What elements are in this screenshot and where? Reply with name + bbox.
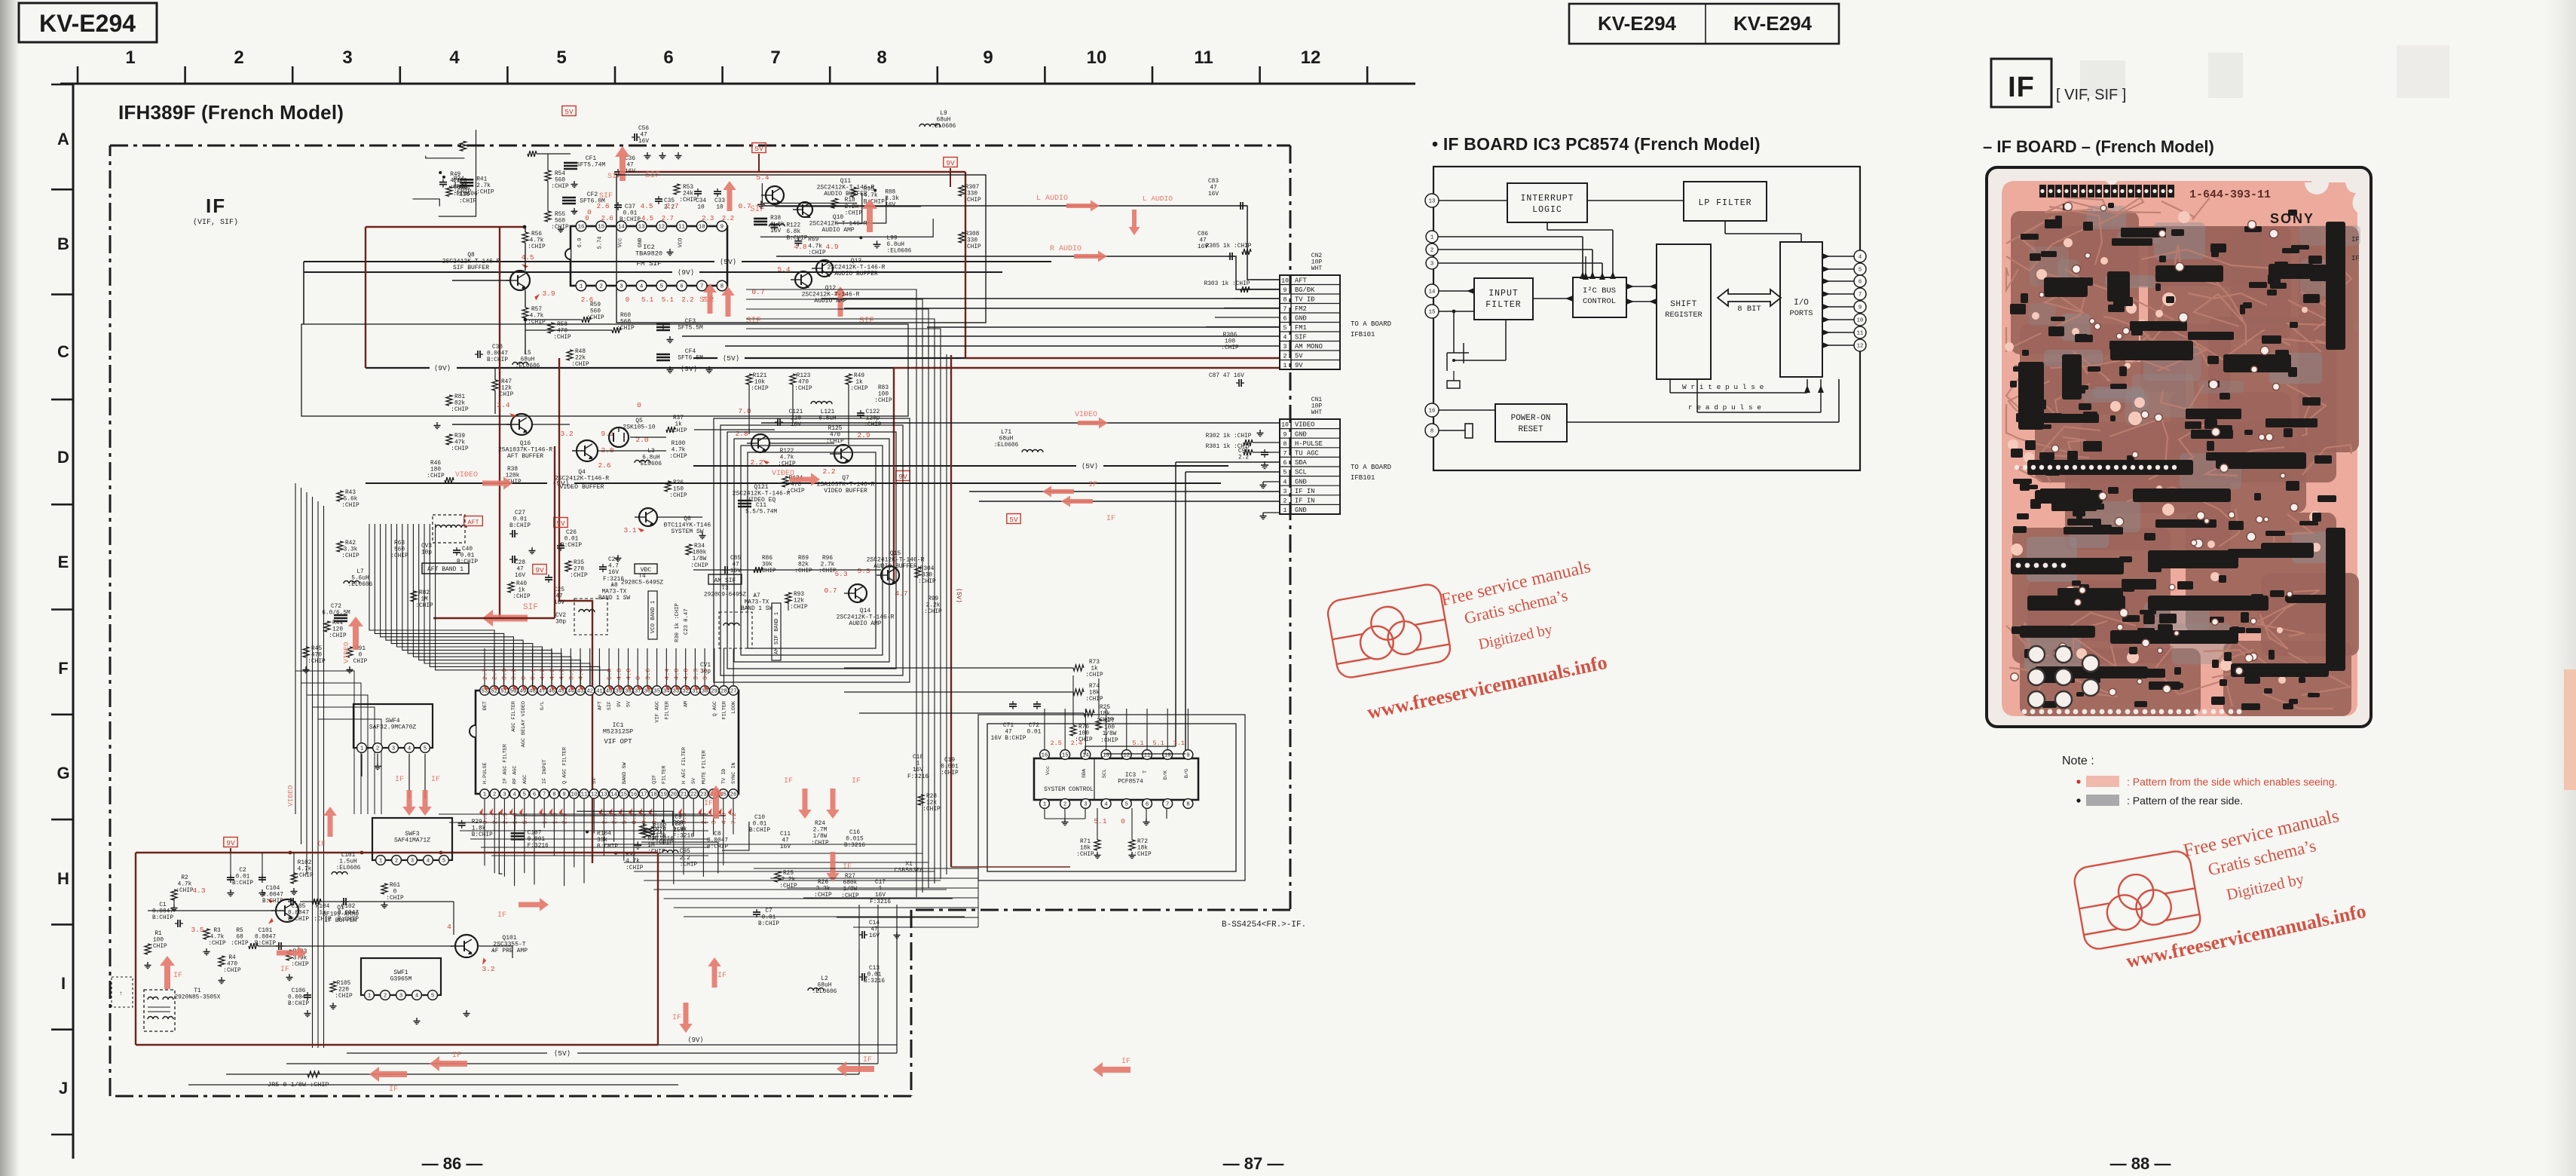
svg-text::CHIP: :CHIP <box>918 579 936 585</box>
block INTERRUPT LOGIC <box>1507 183 1587 222</box>
svg-text::CHIP: :CHIP <box>390 553 408 559</box>
9V box top audio <box>752 143 766 153</box>
svg-text:2920C9-6495Z: 2920C9-6495Z <box>704 593 746 599</box>
svg-text:5: 5 <box>442 859 445 865</box>
SWF3 filter <box>372 818 452 860</box>
PCB traces <box>2006 198 2351 709</box>
svg-text::CHIP: :CHIP <box>826 439 844 445</box>
transistor Q121 VIDEO EQ <box>751 434 769 452</box>
block INPUT FILTER <box>1474 278 1533 320</box>
svg-text:4.3: 4.3 <box>192 887 205 895</box>
transistor Q14 AUDIO AMP <box>849 584 867 602</box>
transistor Q15 AUDIO BUFFER <box>881 566 899 584</box>
svg-text:16: 16 <box>1042 753 1048 759</box>
block diagram outer box U-IC3 <box>1433 167 1860 470</box>
right side pin circles 4-12 <box>1854 250 1866 262</box>
svg-text:5V: 5V <box>754 145 763 153</box>
svg-text:IF IN: IF IN <box>1295 488 1314 495</box>
svg-text:FILTER: FILTER <box>1485 300 1521 310</box>
svg-text:42: 42 <box>586 689 593 695</box>
svg-text:45: 45 <box>558 689 564 695</box>
svg-text:L5: L5 <box>524 351 531 357</box>
svg-text:3.3k: 3.3k <box>816 887 831 893</box>
svg-text::CHIP: :CHIP <box>451 446 469 452</box>
svg-text:B:CHIP: B:CHIP <box>288 1001 309 1007</box>
svg-text::CHIP: :CHIP <box>427 473 445 479</box>
svg-text:1.8k: 1.8k <box>472 825 486 831</box>
svg-text:16: 16 <box>631 792 638 798</box>
svg-text:C87 47 16V: C87 47 16V <box>1209 373 1244 379</box>
svg-text:CV2: CV2 <box>555 613 566 619</box>
svg-text:2: 2 <box>376 746 379 752</box>
svg-text:Đ/K: Đ/K <box>1163 770 1169 779</box>
svg-text:10k: 10k <box>754 380 765 386</box>
svg-text:40: 40 <box>606 689 613 695</box>
svg-text:6: 6 <box>533 792 536 798</box>
svg-text:LP FILTER: LP FILTER <box>1698 198 1751 208</box>
svg-text:C10: C10 <box>754 815 765 821</box>
svg-text:6: 6 <box>1283 316 1287 323</box>
svg-text:SYSTEM CONTROL: SYSTEM CONTROL <box>1044 787 1094 793</box>
svg-text:T4: T4 <box>638 574 646 580</box>
transistor Q12 AUDIO AMP <box>795 271 812 288</box>
R AUDIO wire <box>776 256 1280 289</box>
svg-text:100: 100 <box>1225 339 1235 345</box>
svg-text:I/O: I/O <box>1794 299 1809 308</box>
svg-text:SCL: SCL <box>1102 769 1108 778</box>
svg-text:RESET: RESET <box>1518 425 1543 434</box>
svg-text:: Pattern of the rear side: : Pattern of the rear side. <box>2127 795 2243 807</box>
svg-text:GNĐ: GNĐ <box>1295 315 1307 323</box>
dashed small box left <box>112 977 133 1007</box>
svg-text:2.6: 2.6 <box>596 202 609 210</box>
svg-text:SYSTEM SW: SYSTEM SW <box>671 528 703 535</box>
svg-text:C107: C107 <box>528 830 542 836</box>
svg-text::CHIP: :CHIP <box>690 563 708 569</box>
svg-text:B:3216: B:3216 <box>844 843 865 849</box>
5V 9V red boxes mid <box>554 518 568 528</box>
svg-text:C28: C28 <box>515 560 525 566</box>
input filter to I2C wire <box>1533 298 1573 299</box>
svg-text:0.001: 0.001 <box>528 837 546 843</box>
svg-text:TV IĐ: TV IĐ <box>721 769 727 784</box>
svg-text:4.8: 4.8 <box>720 813 728 824</box>
svg-text:560: 560 <box>555 178 565 184</box>
svg-text:4.5: 4.5 <box>641 215 653 222</box>
svg-text::CHIP: :CHIP <box>679 198 697 204</box>
svg-text:WHT: WHT <box>1311 409 1323 416</box>
svg-text:3.5: 3.5 <box>702 669 709 680</box>
svg-text:7: 7 <box>1283 306 1287 313</box>
svg-text:IFB101: IFB101 <box>1351 331 1375 338</box>
svg-text:4.7k: 4.7k <box>808 243 822 250</box>
svg-text:R AUDIO: R AUDIO <box>1050 245 1081 253</box>
svg-text:47: 47 <box>1005 730 1012 736</box>
svg-text:16V: 16V <box>913 767 923 773</box>
svg-text:R96: R96 <box>647 836 658 842</box>
lower staircase from left <box>295 671 354 814</box>
svg-text:5V: 5V <box>592 777 598 784</box>
svg-text:5V: 5V <box>1009 516 1018 524</box>
svg-text::EL0606: :EL0606 <box>887 248 912 254</box>
svg-text:GNĐ: GNĐ <box>1295 507 1307 514</box>
svg-text::CHIP: :CHIP <box>149 944 167 950</box>
svg-text:11: 11 <box>678 225 685 231</box>
svg-text:68: 68 <box>236 935 243 941</box>
svg-text:C40: C40 <box>462 547 473 553</box>
CN2 long feed wires <box>821 298 1280 299</box>
svg-text:MUTE FILTER: MUTE FILTER <box>701 750 707 784</box>
svg-text:B:CHIP: B:CHIP <box>457 559 478 565</box>
svg-text:1: 1 <box>360 746 363 752</box>
svg-text:1k: 1k <box>319 911 326 917</box>
svg-text::CHIP: :CHIP <box>1100 738 1118 744</box>
svg-text:10: 10 <box>699 225 705 231</box>
svg-text:22: 22 <box>690 792 697 798</box>
svg-text::CHIP: :CHIP <box>476 189 494 195</box>
svg-text:5: 5 <box>660 284 663 290</box>
wires R54 CF2 <box>547 154 549 170</box>
svg-text:9V: 9V <box>616 700 623 707</box>
svg-text:5V: 5V <box>626 700 632 707</box>
svg-text:B:CHIP: B:CHIP <box>597 844 618 850</box>
svg-text:68uH: 68uH <box>521 357 535 363</box>
svg-text:1.8k: 1.8k <box>770 222 785 228</box>
svg-text:0.0047: 0.0047 <box>338 911 359 917</box>
svg-text:L121: L121 <box>821 409 835 415</box>
svg-text:C1: C1 <box>159 902 167 908</box>
wires Q8 cluster <box>452 280 510 281</box>
svg-text:33: 33 <box>673 689 680 695</box>
svg-text:5.4: 5.4 <box>777 265 790 274</box>
svg-text:220: 220 <box>338 988 349 994</box>
svg-text:R27: R27 <box>845 874 855 880</box>
svg-text::CHIP: :CHIP <box>386 896 404 902</box>
svg-text:IF: IF <box>843 863 852 871</box>
watermark stamp right text <box>2125 806 2368 972</box>
svg-text:C33: C33 <box>714 198 725 204</box>
svg-text:4.0: 4.0 <box>673 669 681 680</box>
audio component cluster <box>769 224 785 227</box>
interrupt logic wires <box>1547 222 1548 230</box>
svg-text:470: 470 <box>830 433 840 439</box>
svg-text:68uH: 68uH <box>999 436 1014 443</box>
SWF1 filter <box>361 958 441 995</box>
svg-text:KV-E294: KV-E294 <box>39 10 136 37</box>
svg-text:R3: R3 <box>213 928 221 934</box>
svg-text:13: 13 <box>601 792 607 798</box>
svg-text:3.6: 3.6 <box>644 669 652 680</box>
svg-text:5: 5 <box>1283 470 1287 476</box>
svg-text:16V: 16V <box>780 844 791 850</box>
svg-text:47k: 47k <box>454 440 465 446</box>
svg-text:24k: 24k <box>683 191 693 198</box>
svg-text:5.6uH: 5.6uH <box>351 576 369 582</box>
IC1 top pin wires <box>484 648 485 686</box>
svg-text:QIF: QIF <box>651 775 657 784</box>
svg-text:2.4: 2.4 <box>1071 740 1082 747</box>
svg-text:0.7: 0.7 <box>738 202 751 210</box>
svg-text:5.1: 5.1 <box>662 296 674 304</box>
connector CN1 10P WHT <box>1280 419 1340 514</box>
svg-text:IF: IF <box>2008 72 2035 103</box>
title box KV-E294 top-center <box>1569 4 1839 44</box>
svg-text::CHIP: :CHIP <box>1221 345 1239 351</box>
PCB photo border <box>1987 167 2371 727</box>
svg-text:3.2: 3.2 <box>482 965 494 973</box>
svg-text:F:3216: F:3216 <box>673 833 694 839</box>
svg-text:R25: R25 <box>1100 705 1110 711</box>
svg-text::CHIP: :CHIP <box>941 770 959 776</box>
5V red box right <box>1007 514 1020 524</box>
svg-text:560: 560 <box>555 219 565 225</box>
svg-text:4.2: 4.2 <box>549 669 556 680</box>
svg-text:1k: 1k <box>518 588 525 594</box>
svg-text::CHIP: :CHIP <box>1085 697 1103 703</box>
svg-text:2: 2 <box>1063 802 1066 808</box>
svg-text:0.01: 0.01 <box>1027 730 1042 736</box>
svg-text:34: 34 <box>663 689 670 695</box>
svg-text:7: 7 <box>1859 292 1862 299</box>
svg-text:R81: R81 <box>454 394 465 400</box>
svg-text:EL0606: EL0606 <box>641 461 662 467</box>
transistor Q10 AUDIO AMP <box>797 202 812 217</box>
svg-text:5.5/5.74M: 5.5/5.74M <box>745 510 777 516</box>
svg-text:4.7k: 4.7k <box>298 867 312 873</box>
svg-text:AUDIO AMP: AUDIO AMP <box>821 227 854 234</box>
svg-text:100: 100 <box>153 938 164 944</box>
svg-text:2: 2 <box>234 47 243 68</box>
svg-text:⟨9V⟩: ⟨9V⟩ <box>678 268 695 277</box>
svg-text::CHIP: :CHIP <box>451 407 469 413</box>
svg-text:IF: IF <box>672 1014 681 1022</box>
svg-text:3.3k: 3.3k <box>344 547 358 553</box>
svg-text:C2: C2 <box>239 868 246 874</box>
svg-text:8: 8 <box>877 47 886 68</box>
svg-text:IF: IF <box>280 966 289 974</box>
svg-text::CHIP: :CHIP <box>779 884 797 890</box>
svg-text::CHIP: :CHIP <box>335 994 353 1000</box>
svg-text:C101: C101 <box>259 928 273 934</box>
svg-text:AFT BUFFER: AFT BUFFER <box>507 453 543 460</box>
svg-text:4: 4 <box>449 47 460 68</box>
svg-text:0: 0 <box>635 676 642 680</box>
T5 dashed box AFT <box>433 515 465 543</box>
PCB copper regions <box>2011 211 2359 716</box>
transistor Q1 IF BUFFER <box>276 899 298 922</box>
svg-text:5.1: 5.1 <box>641 296 653 304</box>
svg-text:2.2: 2.2 <box>680 856 690 862</box>
svg-text:68uH: 68uH <box>937 118 951 124</box>
svg-text:B:CHIP: B:CHIP <box>487 357 508 363</box>
svg-text::CHIP: :CHIP <box>808 250 826 256</box>
svg-text:6: 6 <box>680 284 683 290</box>
svg-text:3: 3 <box>411 859 414 865</box>
svg-text:0.01: 0.01 <box>513 517 528 523</box>
svg-text:C86: C86 <box>1198 231 1208 237</box>
svg-text:150: 150 <box>673 487 684 493</box>
svg-text:⟨5V⟩: ⟨5V⟩ <box>1081 462 1099 470</box>
svg-text:LOGIC: LOGIC <box>1532 205 1562 215</box>
svg-text:2: 2 <box>493 792 496 798</box>
svg-text:47: 47 <box>782 838 789 844</box>
svg-text:VIDEO BUFFER: VIDEO BUFFER <box>560 484 604 491</box>
9V rail mid-upper <box>304 271 1002 273</box>
svg-text:4.9: 4.9 <box>825 243 838 251</box>
svg-text:82k: 82k <box>798 562 809 568</box>
svg-text:R121: R121 <box>753 373 767 379</box>
svg-text:9V: 9V <box>946 159 955 167</box>
svg-text:R4: R4 <box>228 955 236 961</box>
svg-text::EL0606: :EL0606 <box>812 989 837 995</box>
svg-text:12: 12 <box>1857 344 1864 350</box>
svg-text:3.2: 3.2 <box>560 430 573 438</box>
svg-text:12k: 12k <box>926 801 937 807</box>
svg-text:1: 1 <box>1283 363 1287 369</box>
svg-text:9: 9 <box>562 792 565 798</box>
svg-text:TU AGC: TU AGC <box>1295 450 1319 458</box>
svg-text:7: 7 <box>1283 451 1287 458</box>
svg-text:2.2k: 2.2k <box>845 204 859 210</box>
svg-text:C121: C121 <box>789 409 803 415</box>
svg-text:2.7: 2.7 <box>665 202 678 210</box>
svg-text:C19: C19 <box>944 758 955 764</box>
block SHIFT REGISTER <box>1657 244 1711 379</box>
write pulse wire <box>1669 379 1671 393</box>
svg-text:560: 560 <box>394 547 405 553</box>
svg-text:43: 43 <box>577 689 584 695</box>
svg-text:18k: 18k <box>1100 712 1110 718</box>
IF red arrows bottom <box>160 956 175 989</box>
svg-text:C106: C106 <box>292 988 306 994</box>
pin 16 circle and wire <box>1425 403 1439 417</box>
svg-text:2.7: 2.7 <box>491 669 499 680</box>
svg-text::CHIP: :CHIP <box>794 386 812 392</box>
svg-text:r e a d p u l s e: r e a d p u l s e <box>1688 403 1761 412</box>
svg-text:C71: C71 <box>1003 723 1014 729</box>
svg-text:B:CHIP: B:CHIP <box>758 921 779 927</box>
block I/O PORTS <box>1780 242 1822 377</box>
svg-text:H AFC FILTER: H AFC FILTER <box>681 747 687 784</box>
wire loops around IC3 <box>987 724 1236 871</box>
svg-text:4.2: 4.2 <box>539 669 546 680</box>
svg-text:7: 7 <box>700 284 703 290</box>
svg-text:25Y: 25Y <box>673 828 684 834</box>
svg-text:32: 32 <box>682 689 689 695</box>
svg-text:R73: R73 <box>1089 660 1100 666</box>
svg-text:R36: R36 <box>673 480 684 486</box>
svg-text:1: 1 <box>483 792 486 798</box>
svg-text:4.0: 4.0 <box>683 669 690 680</box>
maroon box bottom left <box>136 852 658 853</box>
svg-text:Q AGC: Q AGC <box>712 701 718 716</box>
svg-text:SIF: SIF <box>607 173 621 181</box>
transistor Q101 IF PRE AMP <box>455 935 478 957</box>
I2C to shift register bus <box>1626 286 1657 287</box>
svg-text:4: 4 <box>640 284 643 290</box>
svg-text:PCF8574: PCF8574 <box>1118 779 1143 786</box>
svg-text:H: H <box>57 869 69 888</box>
svg-text:CV1: CV1 <box>700 663 711 669</box>
transformer T1 <box>144 990 175 1031</box>
svg-text:1/8W: 1/8W <box>693 556 707 562</box>
svg-text:12: 12 <box>591 792 598 798</box>
svg-text:1: 1 <box>1283 507 1287 514</box>
svg-text:AM MONO: AM MONO <box>1295 343 1323 351</box>
svg-text:R102: R102 <box>298 860 312 866</box>
svg-text:9: 9 <box>983 47 993 68</box>
svg-text:0: 0 <box>1121 817 1125 825</box>
svg-text:R308: R308 <box>965 231 980 237</box>
svg-text:5V: 5V <box>564 108 574 116</box>
svg-text:0.01: 0.01 <box>236 874 250 880</box>
SIF red arrows IC2 <box>615 146 630 181</box>
svg-text:7.2: 7.2 <box>730 813 738 824</box>
svg-text:A: A <box>57 130 69 149</box>
svg-text:R39: R39 <box>454 433 465 439</box>
svg-text:B:CHIP: B:CHIP <box>152 915 173 921</box>
CN2 stub wires <box>1251 279 1280 280</box>
component cluster left of IC2 <box>439 171 442 174</box>
svg-text:B:CHIP: B:CHIP <box>262 899 283 905</box>
IC3 pin stub wires up <box>1044 709 1045 750</box>
AM SIF box label <box>708 574 742 584</box>
VIDEO wire <box>761 422 1280 424</box>
svg-text:12: 12 <box>658 225 665 231</box>
svg-text:SHIFT: SHIFT <box>1670 300 1697 309</box>
svg-text:560: 560 <box>590 309 601 315</box>
5V feed to IC3 <box>951 866 1070 868</box>
svg-text:IF: IF <box>863 1056 872 1064</box>
svg-text:R24: R24 <box>815 821 825 827</box>
svg-text:9V: 9V <box>1295 362 1303 369</box>
SIF red arrow mid <box>482 610 528 627</box>
svg-text:TBA9820: TBA9820 <box>635 250 662 258</box>
svg-text:47: 47 <box>870 927 878 933</box>
svg-text:1k: 1k <box>1091 666 1098 672</box>
svg-text:50: 50 <box>510 689 517 695</box>
svg-text:2920C5-6495Z: 2920C5-6495Z <box>621 580 663 586</box>
svg-text:5.0: 5.0 <box>606 669 613 680</box>
svg-text:Ѧ8: Ѧ8 <box>610 583 618 589</box>
svg-text:14: 14 <box>610 792 617 798</box>
LP filter wires <box>1724 221 1726 234</box>
svg-text:AGC FILTER: AGC FILTER <box>511 701 517 732</box>
svg-text:15: 15 <box>1429 310 1436 316</box>
CF2 filter <box>562 197 576 199</box>
svg-text:35: 35 <box>653 689 660 695</box>
svg-text:0: 0 <box>585 215 589 222</box>
svg-text:6.0: 6.0 <box>577 238 583 248</box>
svg-text:— 86 —: — 86 — <box>422 1154 483 1173</box>
svg-text:6: 6 <box>663 47 673 68</box>
svg-text:SYNC IN: SYNC IN <box>731 762 737 784</box>
svg-text:F: F <box>58 659 68 678</box>
svg-text:R104: R104 <box>597 831 611 837</box>
svg-text:R53: R53 <box>683 185 693 191</box>
svg-text:2.2: 2.2 <box>1238 455 1249 461</box>
svg-text:I²C BUS: I²C BUS <box>1583 286 1616 296</box>
maroon vertical mid right <box>950 355 952 867</box>
svg-text:TO A BOARD: TO A BOARD <box>1351 464 1391 471</box>
capacitor on pin 15 net <box>1453 311 1455 353</box>
grounds top <box>647 152 648 156</box>
svg-text:0: 0 <box>359 653 363 659</box>
svg-text:L2: L2 <box>821 976 828 982</box>
svg-text:R72: R72 <box>1137 839 1148 845</box>
svg-text:D: D <box>57 448 69 467</box>
svg-text:1: 1 <box>125 47 135 68</box>
